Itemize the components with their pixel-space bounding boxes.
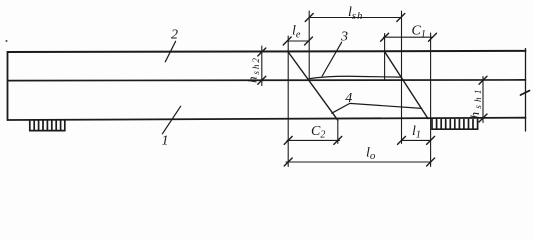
svg-text:4: 4: [345, 91, 352, 106]
svg-text:1: 1: [162, 134, 169, 149]
svg-text:2: 2: [171, 28, 178, 43]
svg-text:3: 3: [340, 30, 348, 45]
